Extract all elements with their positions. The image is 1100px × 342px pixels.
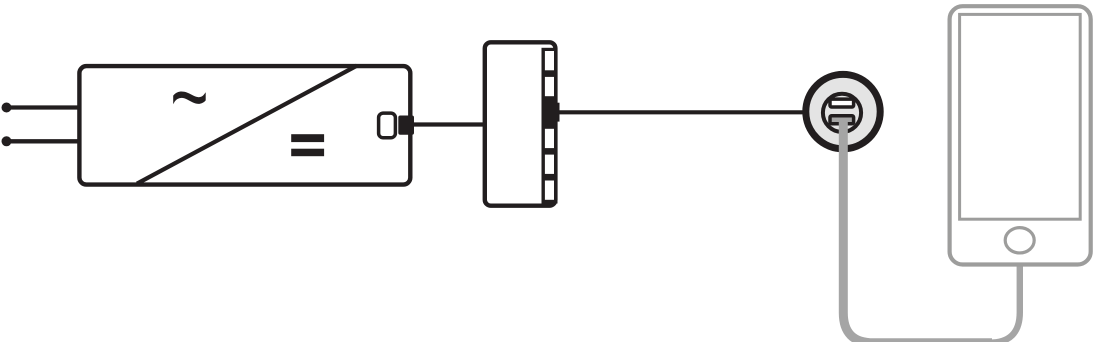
hub port block: [542, 48, 558, 204]
adapter USB plug: [398, 116, 414, 135]
phone charging cable: [930, 262, 1020, 342]
hub port 4: [545, 129, 554, 148]
power adapter body: [79, 66, 410, 185]
smartphone home button: [1005, 228, 1034, 253]
adapter USB output socket: [379, 113, 396, 138]
AC tilde symbol: [173, 92, 206, 105]
AC input terminal dot top: [2, 103, 12, 113]
AC input wire top: [7, 105, 81, 109]
DC equals bar top: [291, 134, 324, 142]
USB icon top contact: [830, 99, 854, 107]
wire hub to socket: [552, 110, 812, 114]
hub port 5: [545, 155, 554, 174]
DC equals bar bottom: [291, 149, 324, 157]
USB wall socket outer ring: [806, 74, 880, 148]
AC input terminal dot bottom: [2, 136, 12, 146]
USB plug in hub port 3: [544, 103, 560, 122]
USB hub body: [485, 42, 556, 205]
smartphone screen: [960, 14, 1081, 219]
AC/DC separator diagonal: [137, 66, 357, 184]
AC input wire bottom: [7, 139, 81, 143]
charging cable from socket: [843, 118, 992, 342]
USB socket inner ring: [823, 94, 861, 132]
USB icon bottom contact: [830, 116, 854, 124]
hub port 2: [545, 77, 554, 96]
wire adapter to hub: [402, 122, 487, 126]
hub port 6: [545, 181, 554, 200]
hub port 1: [545, 51, 554, 70]
smartphone body: [950, 6, 1091, 264]
